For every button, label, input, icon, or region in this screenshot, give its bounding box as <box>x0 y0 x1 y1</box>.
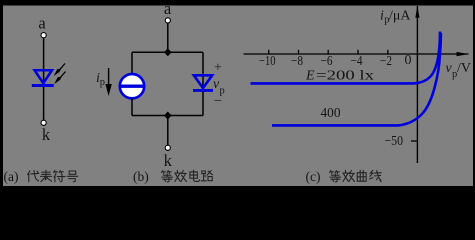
svg-text:k: k <box>42 125 51 144</box>
y axis label iP/uA <box>380 9 411 26</box>
tick label -10 <box>259 54 276 69</box>
wire right side upper <box>202 52 204 115</box>
svg-text:(b): (b) <box>133 169 149 184</box>
caption (c) hanzi 等效曲线 <box>330 170 381 182</box>
svg-text:(c): (c) <box>306 169 321 184</box>
node a label (b-part) <box>164 0 172 18</box>
curve E=200lx <box>251 32 441 84</box>
tick -8 <box>298 50 300 54</box>
current label iP with arrow <box>96 68 112 96</box>
terminal k circle (a-part) <box>41 120 46 125</box>
node k label (a-part) <box>42 125 51 144</box>
tick -2 <box>387 50 389 54</box>
frame border top <box>0 0 475 6</box>
node a label (a-part) <box>38 14 46 33</box>
svg-text:k: k <box>164 151 173 170</box>
tick label 0 <box>405 53 412 68</box>
frame border left <box>0 0 3 188</box>
tick -6 <box>327 50 329 54</box>
tick label -4 <box>351 54 363 69</box>
wire a to top junction <box>167 23 169 52</box>
svg-text:/V: /V <box>457 61 471 76</box>
junction top node <box>164 48 172 56</box>
photodiode D (a-part) <box>32 70 54 85</box>
minus label <box>214 94 222 109</box>
curve 400lx <box>272 33 441 125</box>
label 400 <box>321 106 341 121</box>
svg-text:−2: −2 <box>380 54 392 69</box>
svg-text:E: E <box>305 69 315 84</box>
caption (b) <box>133 169 149 184</box>
wire top side <box>132 51 203 53</box>
svg-text:a: a <box>164 0 172 18</box>
svg-text:−4: −4 <box>351 54 363 69</box>
svg-text:p: p <box>100 77 105 88</box>
light arrow 2 <box>54 72 65 85</box>
svg-text:−6: −6 <box>321 54 333 69</box>
tick label -6 <box>321 54 333 69</box>
x axis <box>244 52 469 56</box>
caption (c) <box>306 169 321 184</box>
svg-text:(a): (a) <box>4 169 19 184</box>
svg-text:+: + <box>214 61 222 76</box>
current source I (b-part) <box>120 74 144 98</box>
plus label <box>214 61 222 76</box>
terminal a circle (b-part) <box>165 18 170 23</box>
node k label (b-part) <box>164 151 173 170</box>
x axis label vP/V <box>446 61 472 80</box>
y axis <box>415 6 419 163</box>
svg-text:/μA: /μA <box>389 9 411 24</box>
svg-text:−: − <box>214 94 222 109</box>
wire bottom side <box>132 115 203 117</box>
caption (a) <box>4 169 19 184</box>
svg-text:0: 0 <box>405 53 412 68</box>
svg-text:−50: −50 <box>385 134 404 149</box>
tick -10 <box>268 50 270 54</box>
y tick -50 <box>411 140 418 142</box>
label E=200 lx <box>305 69 374 84</box>
svg-text:−10: −10 <box>259 54 276 69</box>
frame border bottom <box>0 186 475 188</box>
svg-text:400: 400 <box>321 106 341 121</box>
tick -4 <box>357 50 359 54</box>
wire bottom junction to k <box>167 116 169 146</box>
wire left side upper <box>131 52 133 74</box>
vP label <box>213 77 225 97</box>
light arrow 1 <box>54 64 65 77</box>
svg-text:a: a <box>38 14 46 33</box>
wire anode to cathode (a-part) <box>43 38 45 120</box>
tick label -2 <box>380 54 392 69</box>
caption (b) hanzi 等效电路 <box>162 170 213 182</box>
svg-text:−8: −8 <box>291 54 303 69</box>
diode D (b-part) <box>193 75 213 90</box>
wire left side lower <box>131 99 133 116</box>
terminal k circle (b-part) <box>165 145 170 150</box>
terminal a circle (a-part) <box>41 33 46 38</box>
tick label -8 <box>291 54 303 69</box>
caption (a) hanzi 代表符号 <box>28 170 78 182</box>
svg-text:=200 lx: =200 lx <box>316 69 374 84</box>
frame border right <box>473 0 475 188</box>
junction bottom node <box>164 112 172 120</box>
y tick label -50 <box>385 134 404 149</box>
